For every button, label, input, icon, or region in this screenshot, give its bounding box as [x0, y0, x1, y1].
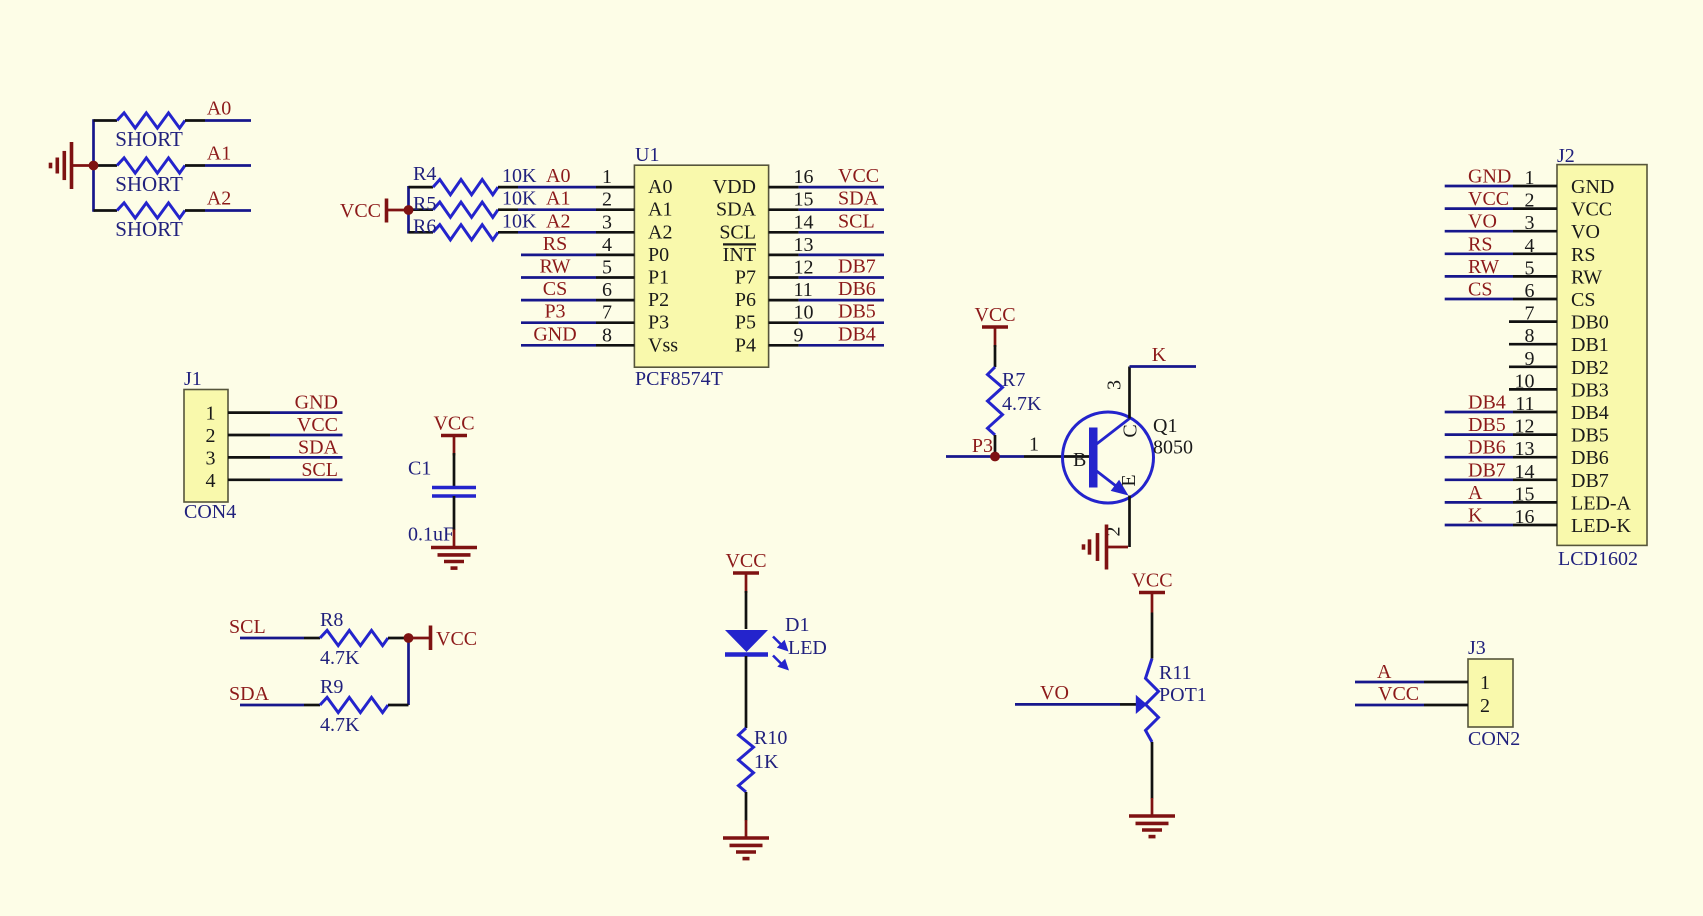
- svg-text:DB7: DB7: [1468, 459, 1506, 481]
- svg-text:GND: GND: [533, 323, 576, 345]
- wire: [453, 453, 456, 486]
- svg-text:GND: GND: [295, 392, 338, 414]
- wire: [407, 638, 410, 705]
- svg-text:RS: RS: [543, 233, 567, 255]
- svg-text:P0: P0: [648, 244, 669, 266]
- svg-text:GND: GND: [1468, 166, 1511, 188]
- pin 16: [769, 186, 799, 189]
- svg-text:A0: A0: [648, 176, 672, 198]
- svg-text:DB4: DB4: [1468, 392, 1506, 414]
- wire: [799, 276, 884, 279]
- svg-text:CS: CS: [543, 278, 567, 300]
- svg-text:LCD1602: LCD1602: [1558, 548, 1638, 570]
- svg-text:P2: P2: [648, 289, 669, 311]
- svg-text:2: 2: [206, 425, 216, 447]
- wire: [498, 208, 518, 211]
- svg-text:12: 12: [794, 257, 814, 279]
- svg-text:DB4: DB4: [838, 323, 876, 345]
- junction: [404, 633, 414, 643]
- svg-text:VDD: VDD: [713, 176, 756, 198]
- pin 10: [769, 321, 799, 324]
- svg-text:PCF8574T: PCF8574T: [635, 368, 723, 390]
- svg-text:10K: 10K: [502, 188, 537, 210]
- svg-text:8: 8: [602, 324, 612, 346]
- pin 4: [596, 254, 634, 257]
- pin 14: [769, 231, 799, 234]
- wire: [799, 254, 884, 257]
- svg-text:VCC: VCC: [1378, 683, 1419, 705]
- svg-text:8050: 8050: [1153, 437, 1193, 459]
- svg-text:VCC: VCC: [1571, 199, 1612, 221]
- power VCC: [725, 550, 766, 593]
- svg-text:VCC: VCC: [974, 304, 1015, 326]
- wire: [453, 496, 456, 530]
- svg-text:SCL: SCL: [301, 459, 338, 481]
- svg-text:E: E: [1118, 474, 1140, 486]
- power VCC: [340, 199, 404, 223]
- svg-text:DB0: DB0: [1571, 312, 1609, 334]
- svg-text:D1: D1: [785, 614, 809, 636]
- svg-text:A1: A1: [207, 143, 231, 165]
- svg-text:3: 3: [206, 447, 216, 469]
- svg-text:A2: A2: [207, 188, 231, 210]
- junction: [990, 452, 1000, 462]
- wire: [409, 231, 434, 234]
- svg-text:DB5: DB5: [1571, 425, 1609, 447]
- power VCC: [1131, 570, 1172, 613]
- svg-text:4.7K: 4.7K: [1002, 393, 1042, 415]
- wire: [799, 299, 884, 302]
- wire: [1445, 252, 1513, 255]
- wire: [270, 456, 343, 459]
- svg-text:DB5: DB5: [838, 301, 876, 323]
- svg-text:DB2: DB2: [1571, 357, 1609, 379]
- svg-text:2: 2: [1480, 695, 1490, 717]
- wire: [799, 344, 884, 347]
- pin 7: [596, 321, 634, 324]
- resistor R10: [739, 728, 754, 792]
- ground: [431, 530, 477, 569]
- svg-text:A0: A0: [546, 165, 570, 187]
- IC U1 PCF8574T body: [634, 165, 768, 367]
- wire: [409, 208, 434, 211]
- svg-text:DB7: DB7: [838, 256, 876, 278]
- svg-text:P4: P4: [735, 334, 756, 356]
- wire: [270, 478, 343, 481]
- wire: [799, 231, 884, 234]
- wire: [1445, 478, 1513, 481]
- wire: [92, 119, 95, 212]
- svg-text:VO: VO: [1040, 682, 1069, 704]
- svg-text:P3: P3: [972, 435, 993, 457]
- svg-text:VCC: VCC: [1131, 570, 1172, 592]
- wire: [799, 321, 884, 324]
- svg-text:CON4: CON4: [184, 501, 236, 523]
- svg-text:DB6: DB6: [1468, 437, 1506, 459]
- pin 15: [769, 208, 799, 211]
- svg-text:DB4: DB4: [1571, 402, 1609, 424]
- svg-text:VCC: VCC: [297, 414, 338, 436]
- svg-text:0.1uF: 0.1uF: [408, 524, 454, 546]
- wire: [94, 119, 118, 122]
- svg-text:1K: 1K: [754, 751, 779, 773]
- wire: [498, 231, 518, 234]
- svg-text:Vss: Vss: [648, 334, 678, 356]
- wire: [388, 704, 409, 707]
- connector J3 body: [1468, 659, 1513, 727]
- power VCC: [412, 626, 477, 651]
- wire: [799, 186, 884, 189]
- svg-text:SHORT: SHORT: [115, 172, 183, 196]
- svg-text:R5: R5: [413, 193, 436, 215]
- svg-text:3: 3: [1104, 380, 1126, 390]
- svg-text:DB6: DB6: [1571, 447, 1609, 469]
- svg-text:RW: RW: [539, 256, 570, 278]
- pin 5: [596, 276, 634, 279]
- svg-text:LED: LED: [788, 637, 827, 659]
- wire: [1445, 298, 1513, 301]
- svg-text:A: A: [1468, 482, 1483, 504]
- ground: [1084, 525, 1129, 570]
- svg-text:15: 15: [794, 189, 814, 211]
- diode D1 LED: [725, 630, 789, 671]
- svg-text:A2: A2: [648, 221, 672, 243]
- pin 9: [769, 344, 799, 347]
- svg-text:SDA: SDA: [229, 683, 270, 705]
- svg-text:SCL: SCL: [229, 616, 266, 638]
- wire: [521, 321, 596, 324]
- svg-text:SDA: SDA: [298, 436, 339, 458]
- pin 11: [769, 299, 799, 302]
- svg-text:3: 3: [602, 211, 612, 233]
- svg-text:P1: P1: [648, 267, 669, 289]
- wire: [1355, 704, 1424, 707]
- potentiometer R11: [1146, 659, 1159, 743]
- svg-text:P5: P5: [735, 312, 756, 334]
- wiper arrow: [1136, 695, 1147, 714]
- svg-text:4: 4: [602, 234, 612, 256]
- svg-text:9: 9: [794, 324, 804, 346]
- svg-text:Q1: Q1: [1153, 415, 1177, 437]
- wire: [994, 435, 997, 457]
- svg-text:6: 6: [602, 279, 612, 301]
- svg-text:4: 4: [206, 470, 216, 492]
- svg-text:SDA: SDA: [716, 199, 757, 221]
- pin 12: [769, 276, 799, 279]
- wire: [745, 591, 748, 629]
- svg-text:CON2: CON2: [1468, 728, 1520, 750]
- svg-text:DB7: DB7: [1571, 470, 1609, 492]
- svg-text:DB1: DB1: [1571, 334, 1609, 356]
- svg-text:SHORT: SHORT: [115, 127, 183, 151]
- svg-text:RS: RS: [1468, 233, 1492, 255]
- wire: [1355, 681, 1424, 684]
- junction: [404, 205, 414, 215]
- svg-text:LED-A: LED-A: [1571, 492, 1632, 514]
- transistor Q1: [1063, 412, 1154, 503]
- svg-text:POT1: POT1: [1159, 684, 1207, 706]
- svg-text:J1: J1: [184, 368, 202, 390]
- svg-text:U1: U1: [635, 144, 659, 166]
- wire: [521, 276, 596, 279]
- wire: [521, 254, 596, 257]
- svg-text:2: 2: [602, 189, 612, 211]
- svg-text:VCC: VCC: [433, 413, 474, 435]
- wire: [1445, 524, 1513, 527]
- svg-text:4.7K: 4.7K: [320, 714, 360, 736]
- svg-text:GND: GND: [1571, 176, 1614, 198]
- svg-text:10: 10: [794, 302, 814, 324]
- svg-text:DB5: DB5: [1468, 414, 1506, 436]
- wire: [240, 637, 304, 640]
- svg-text:P3: P3: [544, 301, 565, 323]
- wire: [185, 119, 205, 122]
- wire: [1151, 742, 1154, 799]
- ground: [1129, 798, 1175, 837]
- wire: [94, 164, 118, 167]
- wire: [1445, 433, 1513, 436]
- resistor R6: [433, 225, 498, 240]
- resistor R3 SHORT: [117, 203, 185, 218]
- svg-text:P6: P6: [735, 289, 756, 311]
- svg-text:RS: RS: [1571, 244, 1595, 266]
- wire: [407, 186, 410, 234]
- svg-text:P7: P7: [735, 267, 756, 289]
- wire: [185, 209, 205, 212]
- resistor R5: [433, 202, 498, 217]
- svg-text:P3: P3: [648, 312, 669, 334]
- svg-text:J3: J3: [1468, 637, 1486, 659]
- svg-text:J2: J2: [1557, 145, 1575, 167]
- svg-text:A0: A0: [207, 98, 231, 120]
- wire: [1128, 496, 1131, 548]
- power VCC: [974, 304, 1015, 347]
- wire: [1445, 411, 1513, 414]
- wire: [1445, 230, 1513, 233]
- wire: [270, 411, 343, 414]
- svg-text:DB3: DB3: [1571, 379, 1609, 401]
- ground: [723, 820, 769, 859]
- capacitor C1: [432, 488, 476, 497]
- svg-text:R7: R7: [1002, 369, 1025, 391]
- svg-text:16: 16: [794, 166, 814, 188]
- wire: [409, 186, 434, 189]
- svg-text:5: 5: [602, 257, 612, 279]
- connector J2 body: [1557, 165, 1647, 546]
- wire: [94, 209, 118, 212]
- svg-text:A: A: [1377, 661, 1392, 683]
- wire: [1445, 275, 1513, 278]
- svg-text:INT: INT: [723, 244, 756, 266]
- resistor R4: [433, 180, 498, 195]
- svg-text:1: 1: [602, 166, 612, 188]
- wire: [521, 299, 596, 302]
- svg-text:RW: RW: [1468, 256, 1499, 278]
- svg-text:DB6: DB6: [838, 278, 876, 300]
- wire: [1445, 501, 1513, 504]
- svg-text:13: 13: [794, 234, 814, 256]
- svg-text:10K: 10K: [502, 165, 537, 187]
- pin 1: [596, 186, 634, 189]
- svg-text:SCL: SCL: [719, 221, 756, 243]
- resistor R1 SHORT: [117, 113, 185, 128]
- wire: [946, 455, 1024, 458]
- wire: [185, 164, 205, 167]
- svg-text:A1: A1: [648, 199, 672, 221]
- wire: [498, 186, 518, 189]
- pin 13: [769, 254, 799, 257]
- pin 6: [596, 299, 634, 302]
- svg-text:R8: R8: [320, 609, 343, 631]
- wire: [1015, 703, 1120, 706]
- wire: [1445, 185, 1513, 188]
- svg-text:10K: 10K: [502, 210, 537, 232]
- resistor R8: [320, 630, 388, 645]
- svg-text:SCL: SCL: [838, 210, 875, 232]
- svg-text:CS: CS: [1468, 279, 1492, 301]
- svg-text:R11: R11: [1159, 662, 1192, 684]
- wire: [1128, 367, 1131, 419]
- resistor R2 SHORT: [117, 158, 185, 173]
- svg-text:VCC: VCC: [838, 165, 879, 187]
- svg-text:SHORT: SHORT: [115, 217, 183, 241]
- pin 8: [596, 344, 634, 347]
- svg-text:SDA: SDA: [838, 188, 879, 210]
- svg-text:CS: CS: [1571, 289, 1595, 311]
- wire: [521, 344, 596, 347]
- svg-text:14: 14: [794, 211, 814, 233]
- wire: [1445, 207, 1513, 210]
- svg-text:VCC: VCC: [436, 628, 477, 650]
- power VCC: [433, 413, 474, 456]
- svg-text:K: K: [1152, 344, 1167, 366]
- svg-text:RW: RW: [1571, 266, 1602, 288]
- svg-text:VO: VO: [1468, 211, 1497, 233]
- svg-text:K: K: [1468, 505, 1483, 527]
- svg-text:A2: A2: [546, 210, 570, 232]
- svg-text:VCC: VCC: [725, 550, 766, 572]
- svg-text:4.7K: 4.7K: [320, 647, 360, 669]
- wire: [994, 345, 997, 367]
- resistor R7: [988, 367, 1003, 435]
- wire: [1445, 456, 1513, 459]
- svg-text:LED-K: LED-K: [1571, 515, 1632, 537]
- svg-text:11: 11: [794, 279, 813, 301]
- svg-text:B: B: [1073, 449, 1086, 471]
- svg-text:7: 7: [602, 302, 612, 324]
- svg-text:R9: R9: [320, 676, 343, 698]
- wire: [745, 792, 748, 821]
- svg-text:C1: C1: [408, 458, 431, 480]
- pin 2: [596, 208, 634, 211]
- wire: [270, 434, 343, 437]
- svg-text:1: 1: [206, 403, 216, 425]
- wire: [745, 656, 748, 728]
- wire: [799, 208, 884, 211]
- svg-text:1: 1: [1480, 672, 1490, 694]
- svg-text:C: C: [1120, 424, 1142, 437]
- svg-text:R10: R10: [754, 727, 787, 749]
- wire: [240, 704, 304, 707]
- connector J1 body: [184, 390, 228, 503]
- svg-text:VCC: VCC: [1468, 188, 1509, 210]
- wire: [1151, 613, 1154, 659]
- resistor R9: [320, 697, 388, 712]
- svg-text:R6: R6: [413, 216, 436, 238]
- junction: [89, 161, 99, 171]
- svg-text:VO: VO: [1571, 221, 1600, 243]
- svg-text:R4: R4: [413, 163, 436, 185]
- wire: [388, 637, 406, 640]
- ground: [51, 142, 91, 189]
- svg-text:A1: A1: [546, 188, 570, 210]
- pin 3: [596, 231, 634, 234]
- svg-text:VCC: VCC: [340, 200, 381, 222]
- svg-text:1: 1: [1029, 434, 1039, 456]
